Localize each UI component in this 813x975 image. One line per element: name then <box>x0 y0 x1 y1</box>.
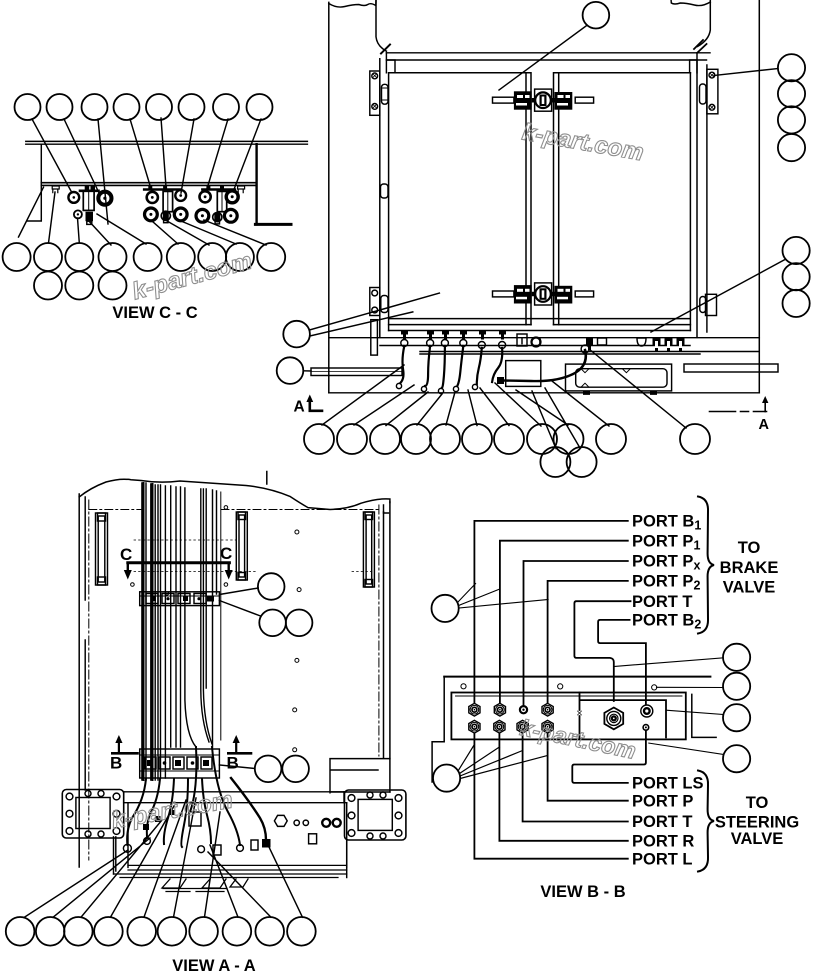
brace steering valve <box>698 771 714 872</box>
channel bracket top flange <box>26 141 308 144</box>
section arrow A right with dash line <box>710 411 767 413</box>
channel bracket left leg <box>28 144 42 221</box>
svg-text:PORT LS: PORT LS <box>632 775 704 793</box>
callout circles right stack of four <box>778 54 805 161</box>
svg-text:B: B <box>110 754 122 773</box>
cabinet right side <box>690 60 697 337</box>
callout circles bottom second row <box>34 272 62 300</box>
small hole marks on panel <box>131 506 302 752</box>
port B2 route <box>598 620 646 704</box>
right post cut ticks <box>694 40 707 53</box>
leader horizontal to shelf bar <box>303 370 311 372</box>
clamp A bottom hardware <box>74 210 82 218</box>
callout circles bottom row view C-C <box>3 243 286 300</box>
clamp C top bar <box>202 188 235 191</box>
callout circles lower right stack of three <box>783 237 810 317</box>
panel left edge <box>78 494 80 867</box>
left post cut tick <box>381 45 390 54</box>
callout circle top <box>583 2 610 29</box>
left slot <box>96 513 108 585</box>
left hinge middle <box>381 184 389 198</box>
svg-text:C: C <box>220 544 232 563</box>
right step <box>330 759 390 793</box>
panel break line top <box>79 479 390 509</box>
port P2 route <box>548 581 628 703</box>
lower clamp bar <box>140 749 220 778</box>
hoses below clamp bar <box>127 747 266 847</box>
hose end fittings <box>123 844 131 852</box>
svg-text:VALVE: VALVE <box>731 830 784 848</box>
svg-text:VIEW C - C: VIEW C - C <box>112 304 197 322</box>
port R route <box>499 734 627 841</box>
panel right edge <box>384 502 390 792</box>
clamp B top bar <box>144 188 181 191</box>
left frame post <box>328 2 330 392</box>
fan leaders lower <box>458 745 548 779</box>
svg-text:PORT B1: PORT B1 <box>632 513 701 533</box>
port LS route <box>572 731 646 783</box>
channel web bottom <box>41 183 256 186</box>
svg-text:TO: TO <box>738 539 761 557</box>
right hinge plate <box>707 69 718 114</box>
tray hardware <box>274 815 287 826</box>
clamp C bolts above bar <box>206 186 224 190</box>
leader lower right stack to right hinge <box>651 260 785 333</box>
clamp A bolts above bar <box>85 186 95 190</box>
callout circle left of cabinet 1 <box>283 321 310 348</box>
right frame post <box>758 0 760 393</box>
right post break line top <box>671 0 710 6</box>
bottom tray panel <box>124 792 347 803</box>
web clip left <box>52 186 59 193</box>
callout circles bottom row A-A <box>6 917 316 946</box>
right flange <box>345 790 406 840</box>
port P1 route <box>500 541 628 703</box>
elbow fitting <box>517 334 527 346</box>
leader right stack to hinge <box>714 69 778 76</box>
medium fitting <box>641 705 653 717</box>
lower tray small <box>506 361 541 387</box>
svg-text:VALVE: VALVE <box>723 579 776 597</box>
callout circle left of cabinet 2 <box>277 357 304 384</box>
svg-text:PORT R: PORT R <box>632 832 694 850</box>
callout circles right column <box>723 644 750 773</box>
cabinet left side <box>380 59 389 338</box>
hex fitting row1 B1 <box>469 703 653 733</box>
clamp A body <box>83 191 94 211</box>
break tick <box>266 472 268 485</box>
port B1 route <box>474 521 627 703</box>
leader lines to bottom circle row <box>322 349 686 449</box>
clamp A washer left <box>68 192 79 203</box>
dotted center line tray <box>135 791 340 793</box>
leader lines from top circles <box>32 118 261 224</box>
callout circles bottom row cabinet <box>304 424 710 477</box>
small port Px <box>520 706 527 713</box>
manifold main bar <box>451 693 685 740</box>
fan leaders upper <box>458 584 549 609</box>
brace brake valve <box>698 497 714 634</box>
hoses under cabinet <box>396 345 589 394</box>
right door panel <box>554 73 691 325</box>
top latch assembly <box>493 89 594 111</box>
svg-text:PORT T: PORT T <box>632 593 693 611</box>
svg-text:PORT B2: PORT B2 <box>632 612 701 632</box>
leaders to clamp circles <box>219 588 260 616</box>
hanging fittings row <box>401 331 685 352</box>
left door panel <box>389 73 531 325</box>
svg-text:k-part.com: k-part.com <box>520 119 646 167</box>
leaders to left hinge <box>310 293 440 336</box>
right slot <box>363 512 374 587</box>
tube bundle verticals <box>142 483 181 780</box>
row 2 hexes <box>469 720 480 733</box>
leader lines to bottom circles <box>24 798 303 918</box>
frame bottom rail <box>329 392 760 394</box>
callout circles top row view C-C <box>15 94 273 120</box>
cabinet top edge <box>386 53 710 60</box>
svg-text:B: B <box>227 754 239 773</box>
svg-text:STEERING: STEERING <box>715 813 799 831</box>
svg-text:A: A <box>759 417 770 433</box>
clamp C washers <box>200 191 211 202</box>
callout circle B-B left upper <box>432 595 459 622</box>
svg-text:BRAKE: BRAKE <box>720 559 779 577</box>
right hinge bottom <box>706 294 717 315</box>
clamp B bottom hardware <box>145 208 158 221</box>
svg-text:PORT P2: PORT P2 <box>632 573 700 593</box>
clip fittings right <box>586 338 593 350</box>
port T lower route <box>523 734 628 822</box>
bracket feet under panel <box>162 879 248 888</box>
L mark top right <box>384 505 389 513</box>
web clip right end <box>238 186 245 193</box>
svg-text:PORT L: PORT L <box>632 850 693 868</box>
left hinge plate bottom <box>370 288 380 316</box>
left center dash-dot line <box>88 500 90 860</box>
clamp A washer right dark <box>98 192 111 205</box>
callout circle pair <box>259 610 286 637</box>
big hex <box>604 708 623 730</box>
right shelf bar <box>684 364 778 372</box>
clamp B body <box>163 191 173 211</box>
port T route <box>574 601 630 701</box>
leaders right column <box>615 658 724 755</box>
big hose right <box>502 350 586 381</box>
leader lines to bottom circles <box>19 187 267 245</box>
svg-text:PORT Px: PORT Px <box>632 553 700 573</box>
svg-text:PORT P: PORT P <box>632 792 693 810</box>
port L route <box>474 734 627 859</box>
svg-text:PORT T: PORT T <box>632 813 693 831</box>
port labels top <box>540 513 799 902</box>
svg-text:TO: TO <box>746 794 769 812</box>
B section arrows <box>118 739 120 753</box>
clamp B bolts above bar <box>148 186 167 190</box>
left shelf bar <box>311 368 402 376</box>
leader to pair circles <box>219 765 254 769</box>
upper clamp bar <box>140 592 220 606</box>
clamp A top bar <box>80 190 99 193</box>
clamp B washers <box>147 192 158 203</box>
svg-text:VIEW A - A: VIEW A - A <box>172 957 255 975</box>
cabinet top right corner step <box>690 53 697 73</box>
svg-text:A: A <box>294 398 305 415</box>
leader to door <box>499 25 587 90</box>
svg-text:C: C <box>120 545 132 564</box>
right end bracket <box>692 694 716 737</box>
middle slot <box>236 512 247 580</box>
manifold top flange <box>444 676 710 678</box>
section line C-C <box>128 561 230 564</box>
channel bracket right leg <box>255 144 257 224</box>
cabinet top left corner step <box>386 53 395 73</box>
port Px route <box>524 561 628 706</box>
hose end fittings <box>396 383 401 388</box>
left hinge knuckle top <box>382 84 389 104</box>
lower tray long <box>566 364 672 391</box>
right hinge knuckle top <box>700 84 707 104</box>
bottom latch assembly <box>493 283 594 305</box>
right sub box <box>580 700 666 737</box>
divider <box>579 693 581 740</box>
door bottom edges <box>389 325 691 331</box>
svg-text:VIEW B - B: VIEW B - B <box>540 883 625 901</box>
flange holes <box>461 684 657 690</box>
bottom frame band <box>329 319 759 354</box>
small port LS <box>643 725 649 731</box>
left hinge knuckle bottom <box>381 296 388 313</box>
dotted lines across bundle <box>134 539 236 541</box>
left hinge plate top <box>370 71 380 115</box>
callout circle pair B <box>255 756 282 783</box>
callout circle B-B left lower <box>433 765 460 792</box>
left flange <box>62 790 123 839</box>
left end bracket <box>371 320 378 355</box>
C arrows <box>124 570 233 580</box>
svg-text:PORT P1: PORT P1 <box>632 532 700 552</box>
svg-text:k-part.com: k-part.com <box>129 248 255 306</box>
callout circle clamp single <box>258 573 285 600</box>
left post break line top <box>329 1 376 7</box>
right inner dash-dot <box>378 505 380 756</box>
port P route <box>548 734 628 801</box>
clamp C body <box>217 191 226 211</box>
clamp C bottom hardware <box>196 209 209 222</box>
